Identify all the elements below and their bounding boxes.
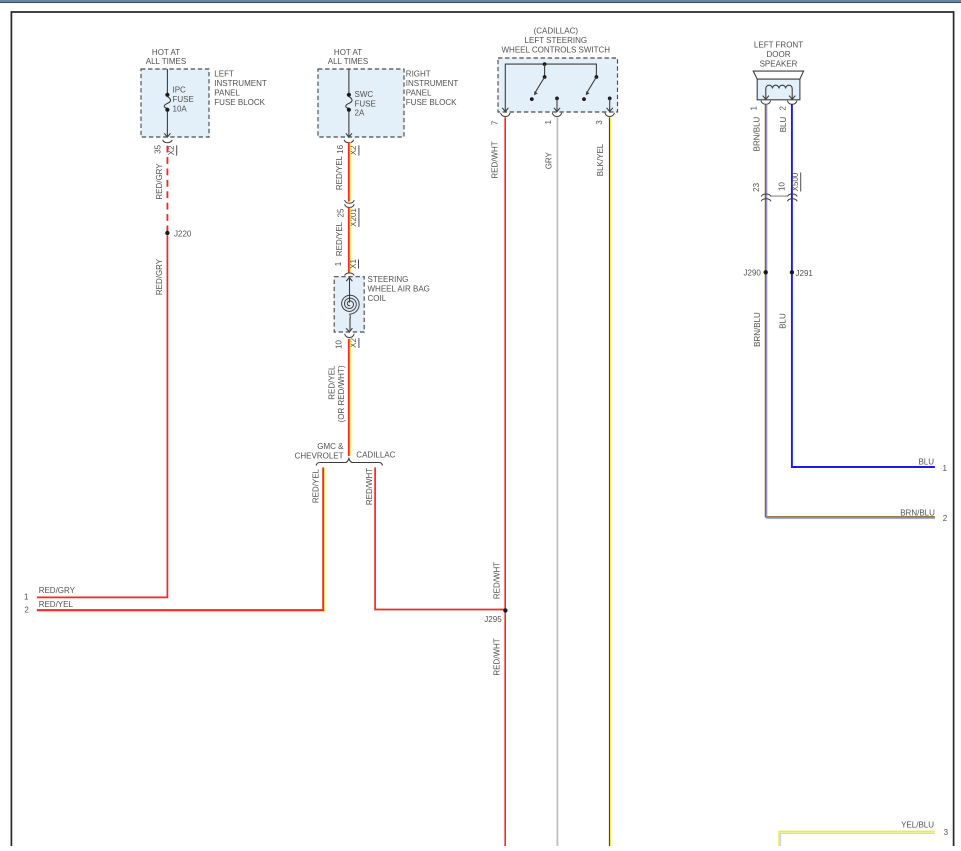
svg-text:2: 2 — [24, 605, 29, 614]
svg-text:IPC: IPC — [173, 85, 187, 94]
connector arc at coil output — [345, 334, 355, 338]
switch lever 1 — [534, 77, 545, 95]
splice node J291 — [790, 269, 814, 278]
svg-text:16: 16 — [336, 144, 345, 153]
inline connector X500 arcs (BRN/BLU wire) — [761, 194, 771, 201]
svg-text:STEERING: STEERING — [368, 275, 409, 284]
connector X500 label — [791, 172, 801, 191]
connector arc at left fuse block output — [163, 140, 173, 143]
connector X2 (left fuse block) — [167, 145, 177, 156]
connector arcs below switch — [501, 113, 615, 117]
svg-text:INSTRUMENT: INSTRUMENT — [406, 79, 459, 88]
svg-text:FUSE BLOCK: FUSE BLOCK — [406, 98, 457, 107]
svg-text:FUSE: FUSE — [355, 99, 376, 108]
coil bottom arrow (points down at box edge) — [346, 318, 352, 332]
connector hat arc at coil input — [345, 273, 355, 276]
connector X1 label — [349, 259, 359, 269]
svg-text:LEFT: LEFT — [214, 69, 234, 78]
svg-text:RED/GRY: RED/GRY — [39, 586, 76, 595]
split brace — [316, 459, 382, 466]
svg-text:WHEEL CONTROLS SWITCH: WHEEL CONTROLS SWITCH — [501, 46, 610, 55]
label HOT AT ALL TIMES (right) — [328, 48, 368, 66]
svg-text:RED/YEL: RED/YEL — [328, 365, 337, 400]
svg-text:ALL TIMES: ALL TIMES — [328, 57, 368, 66]
svg-text:INSTRUMENT: INSTRUMENT — [214, 79, 267, 88]
svg-text:J220: J220 — [174, 229, 192, 238]
svg-text:YEL/BLU: YEL/BLU — [901, 821, 934, 830]
X500 housing tie line — [771, 195, 787, 197]
svg-text:FUSE: FUSE — [173, 95, 194, 104]
svg-text:BLU: BLU — [779, 116, 788, 132]
wire from fuse to pin 35 with arrow — [164, 112, 170, 137]
bus junction dot — [543, 62, 547, 66]
wire from fuse to pin 16 with arrow — [346, 112, 352, 137]
svg-text:RED/YEL: RED/YEL — [311, 468, 320, 503]
connector X201 label — [349, 208, 359, 227]
splice node J220 — [165, 229, 192, 238]
speaker pin labels 1 2 — [750, 106, 788, 111]
connector arc at right fuse block output — [344, 140, 354, 143]
svg-text:(CADILLAC): (CADILLAC) — [534, 27, 579, 36]
wire GRY from switch pin 1 to bottom — [557, 117, 559, 846]
svg-text:FUSE BLOCK: FUSE BLOCK — [214, 98, 265, 107]
svg-text:3: 3 — [595, 120, 604, 125]
svg-text:SWC: SWC — [355, 90, 374, 99]
svg-text:PANEL: PANEL — [214, 88, 240, 97]
speaker SP1 symbol — [753, 71, 803, 100]
svg-text:J295: J295 — [484, 615, 502, 624]
inline connector X201 arcs — [345, 200, 355, 208]
svg-text:HOT AT: HOT AT — [152, 48, 180, 57]
svg-text:RED/WHT: RED/WHT — [365, 468, 374, 505]
wire BLK/YEL from switch pin 3 to bottom — [609, 117, 611, 846]
svg-text:10: 10 — [335, 340, 344, 349]
svg-text:3: 3 — [944, 828, 949, 837]
svg-text:CHEVROLET: CHEVROLET — [295, 451, 344, 460]
fuse block box U1: LEFT INSTRUMENT PANEL FUSE BLOCK — [141, 69, 209, 137]
label LEFT INSTRUMENT PANEL FUSE BLOCK — [214, 69, 267, 107]
svg-text:BRN/BLU: BRN/BLU — [753, 312, 762, 347]
wire RED/GRY solid down and left to edge pin 1 — [37, 235, 168, 597]
svg-text:RED/WHT: RED/WHT — [492, 562, 501, 599]
svg-text:BRN/BLU: BRN/BLU — [753, 116, 762, 151]
svg-text:2: 2 — [943, 514, 948, 523]
svg-text:SPEAKER: SPEAKER — [760, 59, 798, 68]
label RIGHT INSTRUMENT PANEL FUSE BLOCK — [406, 69, 459, 107]
switch box S1 — [498, 58, 618, 112]
svg-text:1: 1 — [544, 120, 553, 125]
svg-text:HOT AT: HOT AT — [334, 48, 362, 57]
wire RED/WHT from switch pin 7 to bottom — [504, 117, 506, 846]
switch pin 3 internal wire with arrow — [607, 97, 613, 112]
fuse F1 IPC FUSE 10A — [164, 85, 194, 113]
connector X2 (coil) — [349, 338, 359, 348]
svg-text:RIGHT: RIGHT — [406, 69, 431, 78]
inline connector X500 arcs (BLU wire) — [787, 194, 797, 201]
svg-text:CADILLAC: CADILLAC — [356, 450, 395, 459]
svg-text:LEFT FRONT: LEFT FRONT — [754, 40, 803, 49]
label STEERING WHEEL AIR BAG COIL — [368, 275, 430, 303]
switch pin labels 7 1 3 — [490, 120, 604, 126]
svg-text:LEFT STEERING: LEFT STEERING — [525, 36, 588, 45]
wire feed into fuse F1 — [166, 69, 168, 93]
label BLU horizontal + edge pin 1 — [918, 457, 947, 473]
label RED/GRY horizontal + edge pin 1 — [24, 586, 76, 601]
svg-text:GRY: GRY — [545, 151, 554, 169]
svg-text:7: 7 — [490, 120, 499, 125]
switch pin 1 internal wire with arrow — [554, 97, 560, 112]
svg-text:BLU: BLU — [918, 457, 934, 466]
svg-text:RED/YEL: RED/YEL — [335, 155, 344, 190]
connector arcs below speaker — [761, 101, 797, 105]
top browser bar — [0, 0, 961, 2]
coil top arrow (points up at box edge) — [346, 278, 352, 303]
svg-text:25: 25 — [337, 208, 346, 217]
contact dot (lever 1) — [530, 97, 534, 101]
label LEFT FRONT DOOR SPEAKER — [754, 40, 803, 68]
svg-text:WHEEL AIR BAG: WHEEL AIR BAG — [368, 285, 430, 294]
wire RED/YEL X201 to X1 — [348, 208, 351, 273]
svg-text:RED/YEL: RED/YEL — [39, 600, 74, 609]
contact dot (lever 2) — [582, 97, 586, 101]
voice coil — [766, 85, 792, 88]
label (CADILLAC) LEFT STEERING WHEEL CONTROLS SWITCH — [501, 27, 610, 55]
switch pin 7 arrow — [502, 108, 508, 112]
svg-text:2A: 2A — [355, 108, 365, 117]
svg-text:X1: X1 — [349, 259, 358, 269]
wire feed into fuse F2 — [348, 69, 350, 93]
svg-text:1: 1 — [24, 592, 29, 601]
clockspring spiral — [342, 295, 360, 318]
fuse block box U2: RIGHT INSTRUMENT PANEL FUSE BLOCK — [318, 69, 404, 137]
wire RED/YEL branch (GMC & CHEVROLET) down and left to edge pin 2 — [37, 468, 325, 612]
switch lever 2 — [586, 77, 597, 95]
svg-text:2: 2 — [779, 106, 788, 111]
svg-text:RED/GRY: RED/GRY — [155, 163, 164, 200]
label BRN/BLU horizontal + edge pin 2 — [900, 508, 948, 523]
wire RED/YEL (OR RED/WHT) coil to brace — [348, 339, 351, 456]
svg-text:COIL: COIL — [368, 294, 387, 303]
svg-text:RED/YEL: RED/YEL — [335, 221, 344, 256]
label GMC & CHEVROLET — [295, 442, 345, 461]
svg-text:10A: 10A — [173, 104, 188, 113]
fuse F2 SWC FUSE 2A — [346, 90, 376, 118]
wire BRN/BLU from speaker pin 1 down and right to edge pin 2 — [766, 104, 935, 518]
switch internal bus — [505, 64, 596, 111]
svg-text:DOOR: DOOR — [767, 50, 791, 59]
svg-text:1: 1 — [942, 464, 947, 473]
svg-text:J291: J291 — [796, 269, 814, 278]
svg-text:X500: X500 — [791, 172, 800, 191]
svg-text:RED/WHT: RED/WHT — [492, 638, 501, 675]
svg-text:1: 1 — [750, 106, 759, 111]
wire RED/YEL fuse to X201 — [348, 142, 351, 201]
svg-text:1: 1 — [334, 261, 343, 266]
splice node J290 — [744, 269, 768, 278]
svg-text:J290: J290 — [744, 269, 762, 278]
svg-text:35: 35 — [153, 144, 162, 153]
label RED/YEL horizontal + edge pin 2 — [24, 600, 73, 614]
svg-text:(OR RED/WHT): (OR RED/WHT) — [337, 365, 346, 422]
label YEL/BLU + edge pin 3 — [901, 821, 948, 837]
svg-text:BLU: BLU — [779, 313, 788, 329]
connector X2 (right fuse block) — [349, 145, 359, 156]
svg-text:GMC &: GMC & — [317, 442, 344, 451]
wire BLU from speaker pin 2 down and right to edge pin 1 — [792, 104, 935, 467]
splice node J295 — [484, 608, 507, 624]
svg-text:10: 10 — [777, 182, 786, 191]
svg-text:PANEL: PANEL — [406, 88, 432, 97]
steering wheel air bag coil box U3 — [334, 277, 364, 332]
wire RED/GRY dashed segment — [166, 146, 168, 231]
svg-text:23: 23 — [752, 182, 761, 191]
wire YEL/BLU bottom right to edge pin 3 — [779, 832, 935, 846]
svg-text:ALL TIMES: ALL TIMES — [146, 57, 186, 66]
svg-text:BRN/BLU: BRN/BLU — [900, 508, 935, 517]
wire RED/WHT branch (CADILLAC) down and right to J295 — [375, 468, 505, 610]
svg-text:RED/WHT: RED/WHT — [491, 141, 500, 178]
svg-text:BLK/YEL: BLK/YEL — [596, 143, 605, 176]
label HOT AT ALL TIMES (left) — [146, 48, 186, 66]
lever 1 pivot stub — [544, 64, 546, 75]
svg-text:RED/GRY: RED/GRY — [155, 258, 164, 295]
lever 2 pivot dot — [595, 75, 599, 79]
label RED/YEL (OR RED/WHT) — [328, 365, 347, 422]
